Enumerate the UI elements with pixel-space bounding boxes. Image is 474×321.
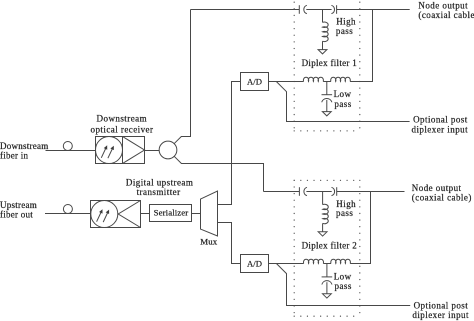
splitter node circle <box>159 141 177 159</box>
svg-text:pass: pass <box>334 99 351 109</box>
label Low pass 1 <box>334 89 352 109</box>
wire between C1 and C2 <box>306 9 331 11</box>
capacitor C2 series (high pass 1 right) <box>331 5 336 14</box>
svg-text:fiber in: fiber in <box>0 151 28 161</box>
wire mux to A/D 1 <box>218 82 241 205</box>
optical receiver U1 amplifier triangle <box>123 137 145 164</box>
svg-text:fiber out: fiber out <box>0 209 33 219</box>
svg-text:Serializer: Serializer <box>154 207 189 217</box>
wire high pass row 2 left <box>264 191 300 193</box>
svg-text:Downstream: Downstream <box>97 114 148 124</box>
svg-text:(coaxial cable): (coaxial cable) <box>418 10 474 20</box>
inductor L1 shunt (high pass 1) with leads <box>323 10 329 50</box>
svg-text:Low: Low <box>334 89 352 99</box>
wire between C4 and C5 <box>306 191 331 193</box>
fiber loop connector 2 <box>63 205 72 214</box>
wire serializer to mux <box>192 213 201 215</box>
capacitor C4 series (high pass 2 left) <box>299 187 307 196</box>
wire A/D 1 to low pass 1 <box>269 81 304 83</box>
svg-text:pass: pass <box>336 26 353 36</box>
svg-text:Digital upstream: Digital upstream <box>126 177 193 187</box>
label Node output 1 <box>418 0 474 19</box>
inductor L2 series (low pass 1 left) <box>303 77 323 81</box>
A/D converter 2 box <box>241 255 269 273</box>
wire between L5 and L6 <box>323 263 331 265</box>
label Low pass 2 <box>334 271 352 291</box>
label Optional post diplexer input 2 <box>412 301 469 321</box>
wire transmitter to serializer <box>141 213 150 215</box>
optical receiver U1 light arrows <box>101 145 114 158</box>
A/D converter 1 box <box>241 73 269 91</box>
svg-text:Optional post: Optional post <box>414 301 469 311</box>
svg-text:transmitter: transmitter <box>137 187 181 197</box>
inductor L4 shunt (high pass 2) with leads <box>323 192 329 232</box>
inductor L3 series (low pass 1 right) <box>331 77 351 81</box>
optical receiver U1 box <box>96 137 145 164</box>
wire downstream fiber in <box>46 150 96 152</box>
label Node output 2 <box>412 183 472 202</box>
label Digital upstream transmitter <box>126 177 193 197</box>
label Optional post diplexer input 1 <box>412 115 469 135</box>
svg-text:(coaxial cable): (coaxial cable) <box>412 192 472 202</box>
wire high pass row 1 left <box>191 9 300 11</box>
ground arrow (high pass 2) <box>318 232 327 236</box>
svg-text:Mux: Mux <box>200 236 218 246</box>
svg-text:A/D: A/D <box>247 76 262 86</box>
upstream transmitter U2 light arrows <box>97 209 110 222</box>
svg-text:optical receiver: optical receiver <box>91 124 154 134</box>
label High pass 1 <box>336 17 356 36</box>
svg-text:Diplex filter 1: Diplex filter 1 <box>302 58 358 68</box>
ground arrow (low pass 2) <box>323 294 332 298</box>
dashed box diplex filter 2 <box>294 180 360 316</box>
wire low pass 2 to junction vertical <box>350 192 370 264</box>
label Upstream fiber out <box>0 200 37 219</box>
svg-text:diplexer input: diplexer input <box>412 310 469 320</box>
label Downstream fiber in <box>0 141 49 161</box>
wire splitter to diplex filter 1 (upper branch) <box>174 10 190 144</box>
wire high pass row 1 right to node output <box>337 9 410 11</box>
wire optional post diplexer input 2 <box>276 264 410 306</box>
optical receiver U1 divider <box>122 137 124 164</box>
wire splitter to diplex filter 2 (lower branch) <box>174 156 263 191</box>
dashed box diplex filter 1 <box>294 2 360 131</box>
wire low pass 1 to junction vertical <box>350 10 372 82</box>
svg-text:pass: pass <box>335 281 352 291</box>
upstream transmitter U2 laser circle <box>91 201 118 228</box>
serializer box <box>150 205 192 222</box>
wire mux to A/D 2 <box>218 223 241 264</box>
upstream transmitter U2 box <box>91 201 141 228</box>
inductor L5 series (low pass 2 left) <box>303 259 323 263</box>
wire receiver to splitter <box>145 150 160 152</box>
capacitor C6 shunt (low pass 2) <box>322 264 333 294</box>
svg-text:Optional post: Optional post <box>413 115 468 125</box>
optical receiver U1 photodiode circle <box>96 137 123 164</box>
svg-text:Low: Low <box>334 271 352 281</box>
wire between L2 and L3 <box>323 81 331 83</box>
wire optional post diplexer input 1 <box>276 82 409 122</box>
capacitor C5 series (high pass 2 right) <box>332 187 337 196</box>
label High pass 2 <box>336 199 356 218</box>
capacitor C3 shunt (low pass 1) <box>322 82 333 112</box>
mux trapezoid <box>201 191 218 236</box>
svg-text:A/D: A/D <box>247 259 262 269</box>
wire A/D 2 to low pass 2 <box>269 263 304 265</box>
svg-text:pass: pass <box>336 208 353 218</box>
fiber loop connector 1 <box>63 142 72 151</box>
inductor L6 series (low pass 2 right) <box>331 259 351 263</box>
svg-text:Downstream: Downstream <box>0 141 49 151</box>
ground arrow (low pass 1) <box>322 112 331 116</box>
ground arrow (high pass 1) <box>318 50 327 54</box>
wire high pass row 2 right to node output <box>337 191 405 193</box>
upstream transmitter U2 amplifier triangle <box>118 201 140 228</box>
wire upstream fiber out <box>45 213 91 215</box>
svg-text:diplexer input: diplexer input <box>412 124 469 134</box>
label Downstream optical receiver <box>91 114 154 135</box>
svg-text:Diplex filter 2: Diplex filter 2 <box>302 240 358 250</box>
capacitor C1 series (high pass 1 left) <box>299 5 307 14</box>
